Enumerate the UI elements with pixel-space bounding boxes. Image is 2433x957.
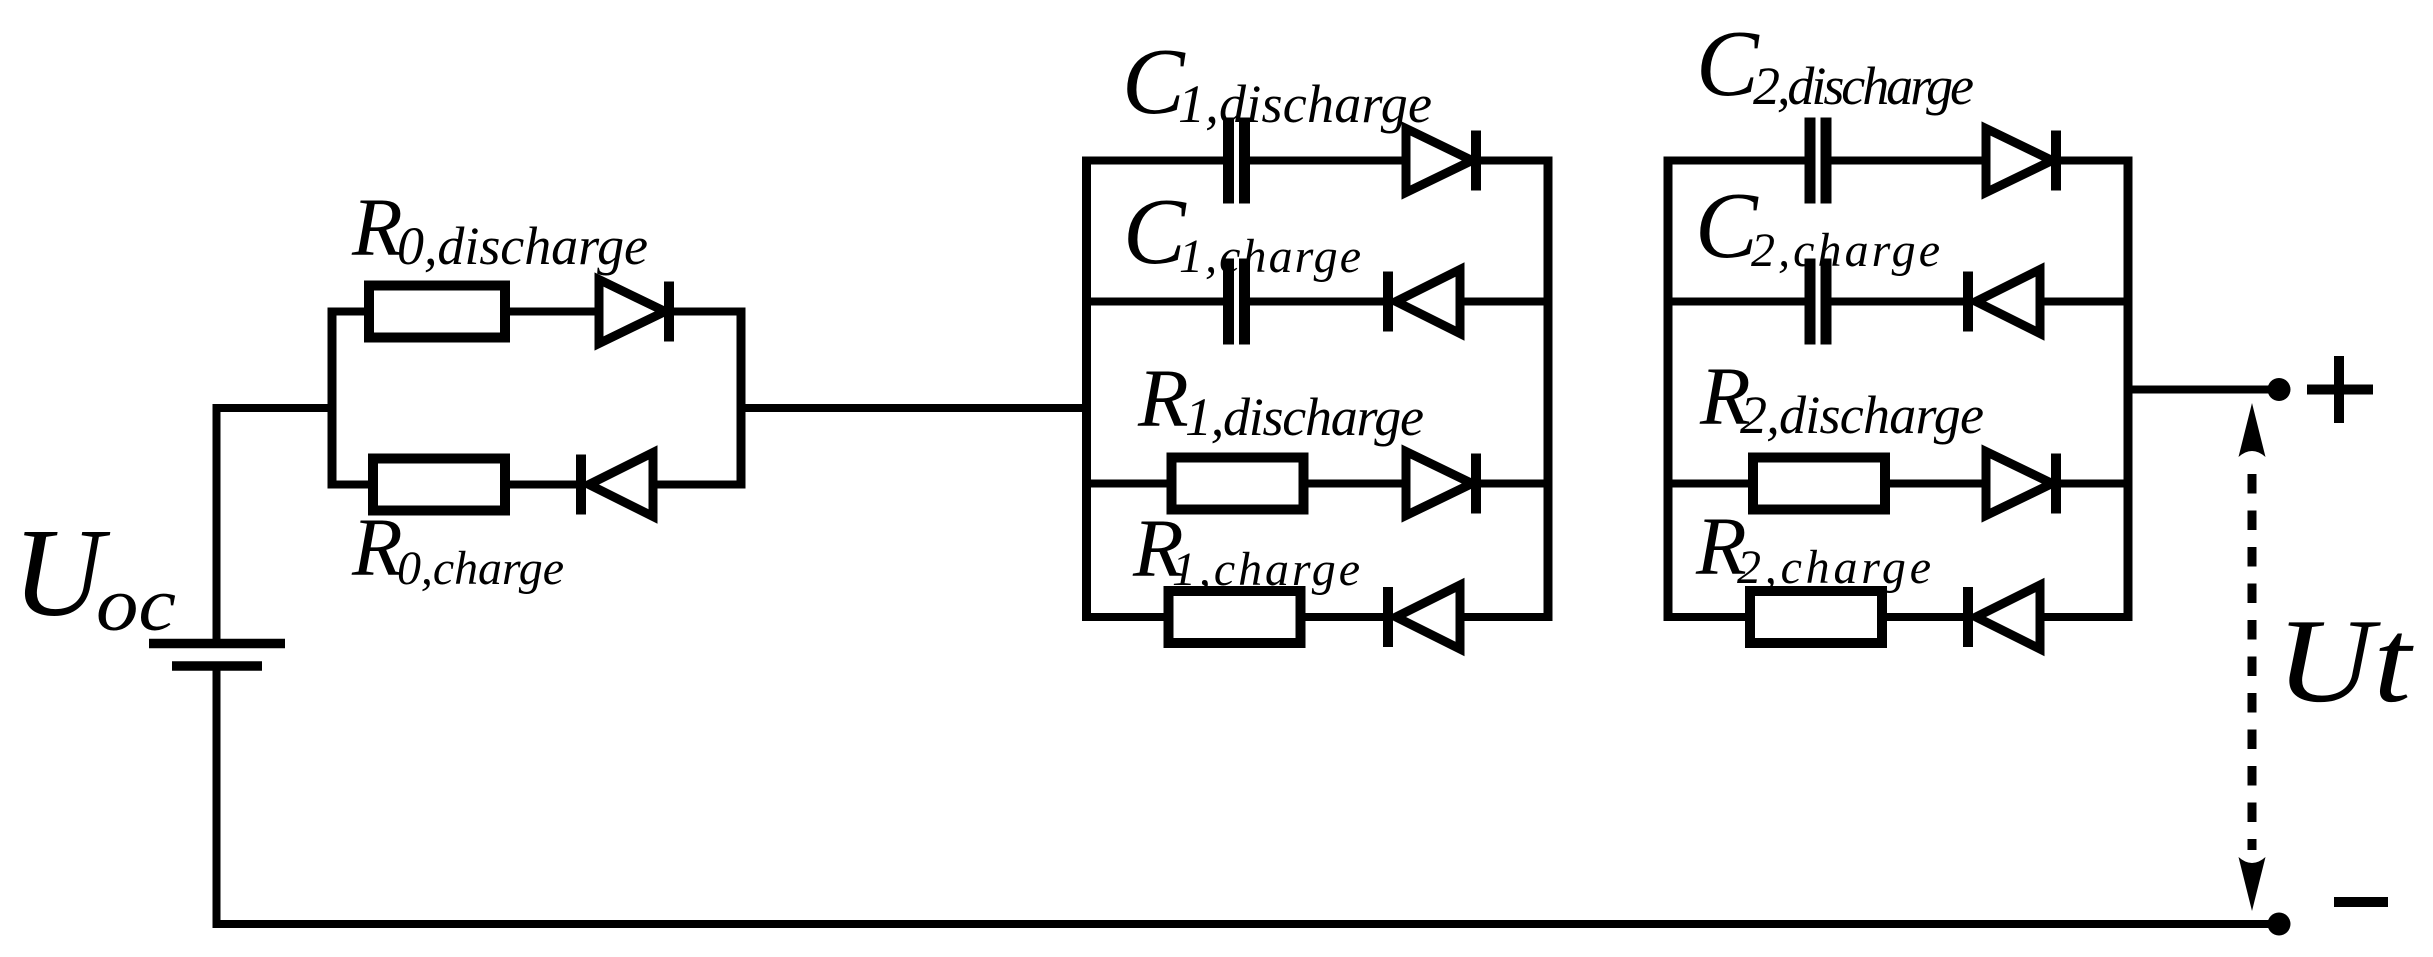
svg-text:R: R <box>1137 352 1189 444</box>
svg-text:2,discharge: 2,discharge <box>1740 385 1984 445</box>
svg-text:C: C <box>1123 180 1187 284</box>
svg-text:oc: oc <box>96 563 176 647</box>
svg-text:1,discharge: 1,discharge <box>1185 387 1424 447</box>
svg-text:C: C <box>1695 174 1759 278</box>
svg-text:1,discharge: 1,discharge <box>1178 74 1432 134</box>
svg-text:C: C <box>1122 30 1186 134</box>
svg-text:2,charge: 2,charge <box>1737 541 1931 594</box>
svg-text:R: R <box>351 501 403 593</box>
svg-text:0,discharge: 0,discharge <box>397 216 648 276</box>
svg-text:1,charge: 1,charge <box>1172 543 1360 596</box>
svg-text:0,charge: 0,charge <box>397 542 564 595</box>
svg-text:Ut: Ut <box>2276 594 2414 727</box>
svg-text:1,charge: 1,charge <box>1179 230 1361 283</box>
svg-text:R: R <box>351 181 403 273</box>
svg-text:2,charge: 2,charge <box>1751 224 1940 277</box>
svg-text:C: C <box>1696 12 1760 116</box>
svg-text:2,discharge: 2,discharge <box>1753 56 1974 116</box>
